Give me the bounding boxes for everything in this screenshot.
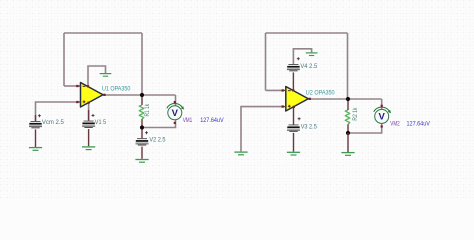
- plus mark V3: [298, 117, 301, 120]
- wire V2 column: [141, 128, 143, 139]
- voltmeter VM1: [167, 101, 184, 124]
- wire V4 to U2 pin: [292, 72, 294, 90]
- wire noninverting input U1: [36, 102, 79, 121]
- wire feedback top U2: [266, 32, 348, 34]
- svg-text:VM1: VM1: [183, 117, 193, 124]
- ground Vcm: [29, 148, 42, 151]
- wire noninverting input U2: [241, 107, 284, 152]
- wire VM1 top drop: [175, 95, 177, 106]
- wire to inverting input U2: [266, 89, 284, 91]
- wire R2 bottom stub: [347, 124, 349, 133]
- wire V3 to ground: [293, 133, 295, 152]
- ground R2: [341, 153, 354, 156]
- junction node fb1: [140, 125, 144, 129]
- voltmeter VM2: [374, 105, 391, 128]
- wire V1 battery lead dark: [88, 110, 90, 121]
- wire feedback right U2: [347, 33, 349, 99]
- wire output U1: [104, 94, 176, 96]
- wire Vcm battery lead dark: [35, 115, 37, 121]
- svg-text:R1 1k: R1 1k: [144, 103, 151, 116]
- wire feedback right U1: [141, 33, 143, 95]
- svg-text:V4 2.5: V4 2.5: [300, 63, 317, 70]
- svg-text:VM2: VM2: [390, 121, 400, 128]
- plus mark Vcm: [38, 114, 41, 117]
- svg-text:R2 1k: R2 1k: [352, 107, 359, 121]
- wire R2 to ground: [347, 133, 349, 152]
- plus mark V2: [145, 131, 148, 134]
- svg-text:U2 OPA350: U2 OPA350: [306, 90, 335, 97]
- wire V1 to ground: [88, 129, 90, 146]
- svg-text:127.64uV: 127.64uV: [407, 121, 431, 128]
- battery V3: [287, 125, 300, 132]
- wire V+ pin to ground U1: [88, 66, 106, 86]
- ground U1 V+: [100, 74, 112, 77]
- ground V2: [135, 160, 148, 163]
- ground V3: [287, 152, 300, 155]
- ground V4: [306, 53, 318, 56]
- svg-text:127.64uV: 127.64uV: [200, 117, 224, 124]
- plus mark V4: [297, 57, 300, 60]
- svg-text:V3 2.5: V3 2.5: [301, 124, 318, 131]
- battery V1: [82, 121, 95, 128]
- svg-text:V2 2.5: V2 2.5: [149, 137, 166, 144]
- junction node fb2: [346, 131, 350, 135]
- wire V3 pin U2: [293, 107, 295, 125]
- wire R2 top stub: [347, 99, 349, 110]
- wire feedback left U2: [265, 33, 267, 90]
- op-amp U1: [76, 83, 105, 108]
- junction node out1: [140, 93, 144, 97]
- wire R1 bottom stub: [141, 119, 143, 128]
- wire output U2: [310, 98, 382, 100]
- wire VM1 bottom: [142, 120, 176, 128]
- battery Vcm: [29, 121, 42, 128]
- ground V1: [82, 147, 95, 150]
- resistor R1: [139, 105, 144, 119]
- wire V1 column: [88, 103, 90, 121]
- wire V4 top: [293, 49, 311, 64]
- svg-text:Vcm 2.5: Vcm 2.5: [42, 119, 64, 126]
- op-amp U2: [282, 87, 311, 112]
- wire feedback left U1: [63, 33, 65, 86]
- wire VM2 top drop: [381, 99, 383, 109]
- resistor R2: [345, 110, 350, 124]
- plus mark V1: [92, 114, 95, 117]
- ground noninverting U2: [234, 152, 247, 155]
- wire feedback top U1: [64, 32, 142, 34]
- svg-text:U1 OPA350: U1 OPA350: [102, 86, 131, 93]
- wire R1 column: [141, 95, 143, 105]
- junction node out2: [346, 97, 350, 101]
- wire to inverting input U1: [64, 85, 78, 87]
- svg-text:V1 5: V1 5: [95, 119, 107, 126]
- battery V2: [136, 138, 149, 145]
- wire Vcm to ground: [35, 129, 37, 147]
- wire VM2 bottom: [348, 123, 382, 133]
- wire V2 to ground: [141, 147, 143, 159]
- battery V4: [287, 64, 300, 71]
